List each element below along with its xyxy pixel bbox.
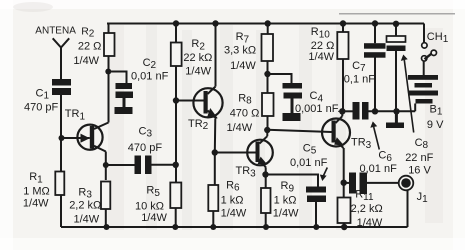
- wire TR3mid emitter down: [265, 168, 267, 189]
- svg-text:22 Ω: 22 Ω: [311, 40, 335, 52]
- resistor R3: [101, 182, 110, 210]
- wire R6 to ground: [212, 211, 214, 227]
- svg-text:10 kΩ: 10 kΩ: [135, 200, 164, 212]
- node TR1 emitter / C3: [103, 162, 109, 168]
- node output cap tap: [341, 180, 347, 186]
- node R11 ground: [341, 224, 347, 230]
- svg-text:0,1 nF: 0,1 nF: [344, 74, 375, 86]
- wire TR1 collector up to R2: [108, 56, 110, 123]
- wire R11 to ground: [343, 223, 345, 227]
- node R6 ground: [210, 224, 216, 230]
- wire TR2 emitter down to R6: [214, 119, 217, 186]
- leader arrow C6: [370, 121, 379, 149]
- wire switch to battery: [423, 61, 425, 75]
- wire R7 to R8: [267, 61, 269, 93]
- node input: [59, 135, 65, 141]
- node C8 bottom: [393, 108, 399, 114]
- capacitor C1: [52, 79, 71, 95]
- resistor R2: [104, 33, 115, 56]
- wire node to C6: [342, 110, 352, 112]
- svg-text:16 V: 16 V: [408, 164, 431, 176]
- svg-text:1/4W: 1/4W: [227, 122, 253, 134]
- transistor TR3 right: [322, 116, 350, 148]
- wire node to C3: [106, 164, 135, 166]
- svg-text:1/4W: 1/4W: [273, 208, 299, 220]
- battery B1: [408, 75, 438, 104]
- wire node to TR3 right base: [267, 130, 331, 132]
- svg-text:0,01 nF: 0,01 nF: [131, 71, 169, 83]
- svg-text:22 Ω: 22 Ω: [78, 41, 102, 53]
- svg-text:ANTENA: ANTENA: [35, 26, 76, 37]
- node R5 ground: [172, 224, 178, 230]
- resistor R9: [261, 188, 271, 213]
- node C8 rail: [393, 21, 399, 27]
- svg-text:1/4W: 1/4W: [221, 208, 247, 220]
- svg-text:1 MΩ: 1 MΩ: [23, 186, 50, 198]
- resistor R11: [338, 198, 351, 224]
- wire rail to R4: [175, 24, 177, 43]
- wire bottom ground rail: [61, 195, 408, 227]
- wire TR1 emitter down to R3: [105, 152, 107, 181]
- node emitter / R9 / C5: [262, 171, 268, 177]
- wire node to C5: [266, 175, 319, 187]
- svg-text:470 pF: 470 pF: [128, 142, 163, 154]
- transistor TR2: [193, 87, 222, 119]
- capacitor output 0,01nF: [349, 173, 367, 195]
- svg-text:1/4W: 1/4W: [73, 55, 99, 67]
- node R3 ground: [104, 224, 110, 230]
- wire node to TR2 base: [176, 100, 204, 102]
- svg-text:0,01 nF: 0,01 nF: [360, 163, 398, 175]
- svg-text:470 Ω: 470 Ω: [230, 108, 260, 120]
- faint page artifact top-right line: [339, 13, 455, 15]
- resistor R5: [170, 183, 181, 209]
- node TR2 base tap: [173, 97, 179, 103]
- svg-text:1 kΩ: 1 kΩ: [274, 195, 297, 207]
- node R9 ground: [263, 224, 269, 230]
- node C4 tap: [264, 71, 270, 77]
- svg-text:1/4W: 1/4W: [141, 212, 167, 224]
- resistor R7: [262, 34, 274, 61]
- node C7 bottom: [372, 108, 378, 114]
- capacitor C8: [387, 24, 406, 112]
- wire rail to R7: [267, 24, 269, 35]
- wire node to TR1: [62, 137, 80, 139]
- wire J1 to ground rail: [407, 190, 409, 227]
- svg-text:0,01 nF: 0,01 nF: [290, 157, 328, 169]
- wire R3 to ground: [105, 209, 107, 227]
- resistor R8: [262, 93, 274, 116]
- capacitor C3: [135, 156, 152, 175]
- svg-text:1/4W: 1/4W: [308, 51, 334, 63]
- leader arrow C5: [320, 168, 328, 182]
- svg-text:1/4W: 1/4W: [357, 217, 383, 229]
- wire top supply rail: [107, 24, 424, 43]
- node R7 rail: [265, 20, 271, 26]
- svg-text:2,2 kΩ: 2,2 kΩ: [351, 203, 383, 215]
- node TR2 collector rail: [212, 20, 218, 26]
- wire C5 to ground: [315, 202, 317, 227]
- node R10 rail: [340, 20, 346, 26]
- node C3 / R5 / R4: [173, 162, 179, 168]
- antenna: [53, 38, 69, 79]
- node collector / R10 / C6: [339, 108, 345, 114]
- wire TR3mid collector: [266, 130, 268, 136]
- resistor R6: [208, 185, 218, 211]
- node R4 top rail: [173, 20, 179, 26]
- scan texture: [108, 25, 443, 230]
- wire C3 to R5 node: [152, 164, 177, 166]
- resistor R1: [55, 172, 64, 196]
- wire R10 down to collector node: [342, 59, 344, 111]
- capacitor C7: [364, 24, 386, 112]
- svg-text:1/4W: 1/4W: [185, 65, 211, 77]
- capacitor C5: [306, 187, 326, 203]
- wire TR3right emitter down to R11: [343, 148, 345, 198]
- svg-text:1/4W: 1/4W: [74, 214, 100, 226]
- capacitor C2: [115, 83, 134, 114]
- wire capacitor to J1: [367, 182, 399, 184]
- capacitor C4: [283, 83, 303, 121]
- svg-text:1/4W: 1/4W: [23, 198, 49, 210]
- svg-text:470 pF: 470 pF: [24, 101, 59, 113]
- switch CH1: [422, 43, 437, 61]
- wire C6 to battery: [369, 104, 416, 112]
- wire node to output capacitor: [344, 182, 349, 184]
- jack J1: [399, 176, 414, 191]
- capacitor C6: [353, 102, 369, 120]
- leader arrow C8: [401, 55, 414, 133]
- node C2 tap: [105, 69, 111, 75]
- wire R4 down through base node to R5: [175, 66, 177, 183]
- wire node to C4: [268, 74, 292, 83]
- wire rail to R10: [342, 24, 344, 33]
- wire C1 to R1: [60, 95, 62, 171]
- svg-text:9 V: 9 V: [427, 119, 444, 131]
- wire R8 to base node: [267, 116, 269, 130]
- resistor R10: [337, 32, 348, 59]
- svg-text:22 nF: 22 nF: [405, 152, 433, 164]
- node C5 ground: [313, 224, 319, 230]
- svg-text:1 kΩ: 1 kΩ: [221, 195, 244, 207]
- transistor TR3 middle: [247, 136, 273, 167]
- node TR2 emitter / R6 / TR3 base: [212, 149, 218, 155]
- terminator bar below C8 node: [386, 111, 404, 128]
- node C7 rail: [372, 20, 378, 26]
- svg-text:1/4W: 1/4W: [230, 60, 256, 72]
- svg-text:0,001 nF.: 0,001 nF.: [295, 103, 340, 115]
- wire TR2 collector to rail: [215, 24, 217, 87]
- wire node to TR3 base: [215, 152, 256, 154]
- resistor R4 (22k): [171, 43, 182, 67]
- svg-text:2,2 kΩ: 2,2 kΩ: [69, 200, 101, 212]
- node R8 / TR3mid collector: [264, 127, 270, 133]
- svg-text:3,3 kΩ: 3,3 kΩ: [224, 45, 256, 57]
- wire R9 to ground: [265, 213, 267, 227]
- transistor TR1: [77, 123, 108, 152]
- wire TR3right collector: [341, 111, 343, 116]
- wire node to C2: [108, 72, 126, 84]
- wire R5 to ground: [175, 208, 177, 227]
- svg-text:22 kΩ: 22 kΩ: [183, 52, 212, 64]
